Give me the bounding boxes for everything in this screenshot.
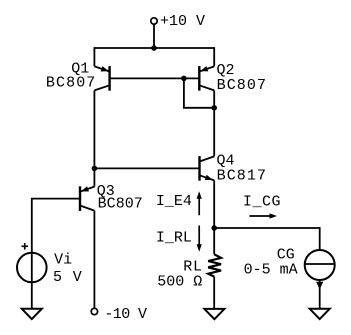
svg-text:+10 V: +10 V <box>160 13 205 30</box>
wire Q3 base to Vi <box>32 199 80 253</box>
resistor RL <box>208 254 221 276</box>
wire Q4 emitter down <box>213 180 215 228</box>
transistor Q2 <box>199 66 214 91</box>
junction base node <box>181 76 187 82</box>
wire RL to ground <box>213 277 215 309</box>
ground at Vi <box>22 309 42 319</box>
wire +10V terminal to rail <box>153 24 155 48</box>
wire node A to Q3 emitter <box>93 168 95 186</box>
svg-text:Vi: Vi <box>54 252 72 269</box>
ground at CG <box>310 309 330 319</box>
svg-text:I_E4: I_E4 <box>156 193 192 210</box>
wire Q1 collector down <box>93 91 95 169</box>
wire Q1 base to Q2 base <box>110 77 200 79</box>
wire CG to ground <box>319 280 321 309</box>
svg-text:-10 V: -10 V <box>104 306 147 323</box>
wire output node to CG <box>214 228 320 250</box>
wire output node to RL <box>213 228 215 254</box>
wire Q2 collector to Q4 collector <box>213 91 215 157</box>
svg-text:BC817: BC817 <box>217 167 268 184</box>
svg-text:BC807: BC807 <box>217 77 268 94</box>
junction node A <box>92 166 98 172</box>
wire Q3 collector to -10V <box>93 211 95 309</box>
terminal +10 V <box>151 18 157 24</box>
junction top rail <box>151 45 157 51</box>
wire top supply rail <box>94 48 214 66</box>
voltage source Vi <box>17 243 47 282</box>
wire node A to Q4 base <box>94 167 199 169</box>
svg-text:BC807: BC807 <box>98 196 143 213</box>
transistor Q4 <box>200 156 215 181</box>
transistor Q1 <box>94 66 109 91</box>
current arrow I_CG <box>249 213 277 218</box>
junction output node <box>211 225 217 231</box>
terminal -10 V <box>91 308 97 314</box>
current arrow I_E4 <box>197 191 202 215</box>
ground at RL <box>204 309 224 319</box>
svg-text:I_RL: I_RL <box>156 229 192 246</box>
svg-text:0-5 mA: 0-5 mA <box>244 261 298 278</box>
current direction arrow on CG wire <box>316 282 323 290</box>
current source CG <box>305 250 335 280</box>
svg-text:500 Ω: 500 Ω <box>157 274 202 291</box>
svg-text:BC807: BC807 <box>46 75 97 92</box>
svg-text:5 V: 5 V <box>53 269 83 286</box>
svg-text:I_CG: I_CG <box>243 194 281 211</box>
wire base node to Q2 collector <box>184 78 214 107</box>
junction Q2 collector tie <box>211 105 217 111</box>
wire Vi to ground <box>31 282 33 309</box>
transistor Q3 <box>80 186 94 211</box>
current arrow I_RL <box>197 226 202 252</box>
